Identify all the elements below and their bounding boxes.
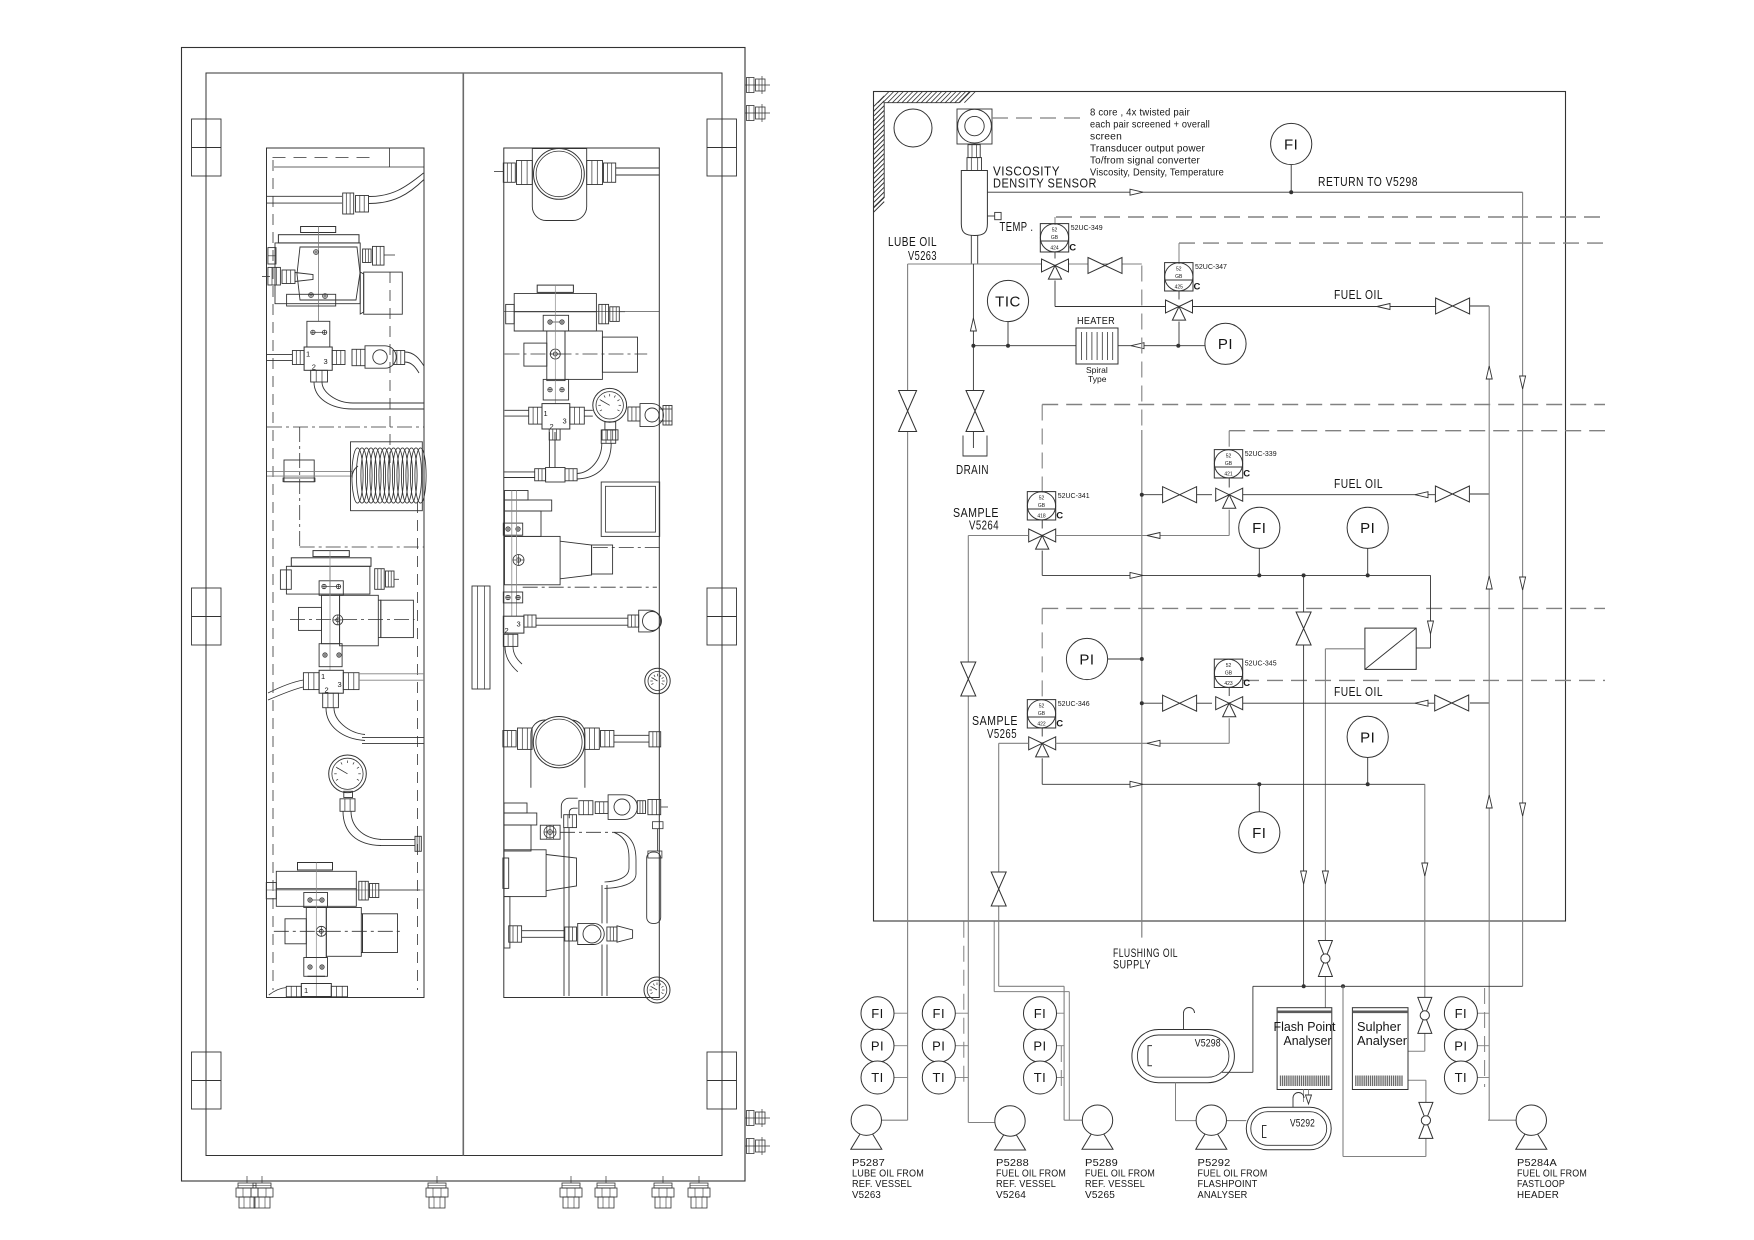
sample labels V5265 [972,713,1018,741]
cable gland [426,1176,448,1208]
pump label P5289 [1085,1157,1155,1201]
svg-text:PI: PI [1360,520,1375,537]
svg-text:TI: TI [871,1070,884,1085]
pump label P5287 [852,1157,924,1201]
collect line row3 [1042,758,1425,787]
svg-text:52UC-341: 52UC-341 [1058,493,1090,500]
fuel oil line row2 [1142,476,1489,498]
svg-text:52UC-345: 52UC-345 [1245,661,1277,668]
svg-text:GB: GB [1175,274,1183,280]
cable gland [560,1176,582,1208]
door split line [462,73,464,1156]
svg-text:C: C [1243,469,1250,480]
svg-text:DENSITY SENSOR: DENSITY SENSOR [993,176,1097,191]
hand valve row1 right [1436,298,1470,314]
equipment box right [601,482,660,536]
svg-text:425: 425 [1175,284,1184,290]
flash point analyser [1274,1008,1337,1090]
hinge block [707,588,737,645]
TEMP tapping [987,212,1033,234]
pump P5292 [1196,1105,1247,1149]
flushing oil label [1113,946,1178,972]
manifold block M3 [269,984,348,997]
hinge block [192,1052,222,1109]
PI row3 left [1066,638,1141,679]
return line to V5298 [987,174,1525,986]
pump P5288 [969,1106,1026,1150]
FI top instrument [1271,123,1312,194]
svg-text:Viscosity, Density, Temperatur: Viscosity, Density, Temperature [1090,167,1224,179]
blank circle [894,109,932,147]
PI row2 [1347,507,1388,575]
svg-text:1: 1 [544,409,548,418]
svg-text:3: 3 [517,620,521,629]
svg-text:PI: PI [1218,336,1233,353]
svg-text:each pair screened + overall: each pair screened + overall [1090,119,1210,131]
svg-text:52: 52 [1039,704,1045,710]
hand valve row3 mid [1163,695,1197,711]
junction box on tube [267,460,352,482]
svg-text:Analyser: Analyser [1357,1034,1407,1048]
sample labels V5264 [953,505,999,533]
pump label P5292 [1198,1157,1268,1201]
svg-text:GB: GB [1051,235,1059,241]
instrument box 52UC-347 [1165,243,1227,299]
flash point analyser drain to V5292 [1293,1090,1312,1108]
cable gland [251,1176,273,1208]
cable gland [595,1176,617,1208]
flow sensor FS1 top [494,149,659,221]
svg-text:52: 52 [1176,267,1182,273]
manifold block MB1 [505,404,593,440]
svg-text:3: 3 [324,357,328,366]
lube oil labels [888,234,937,263]
svg-text:52: 52 [1226,663,1232,669]
svg-text:PI: PI [1454,1038,1467,1053]
svg-text:52: 52 [1052,228,1058,234]
sample isolation valve row2 [961,662,976,696]
svg-text:GB: GB [1038,711,1046,717]
left panel mid centerlines [267,427,424,547]
instrument box 52UC-341 [1027,492,1089,529]
drain valve [966,391,984,432]
filter outlet to analyser [1322,649,1365,1008]
three-way valve V349 [1042,259,1069,279]
svg-text:PI: PI [871,1038,884,1053]
tee fitting assembly [504,430,616,482]
svg-text:1: 1 [304,986,308,995]
svg-text:Flash Point: Flash Point [1274,1020,1337,1034]
left panel dashed borders [273,148,425,990]
pump P5289 [1064,1105,1113,1149]
svg-text:HEADER: HEADER [1517,1189,1559,1201]
pump label P5284A [1517,1157,1587,1201]
svg-text:C: C [1069,243,1076,254]
svg-text:V5265: V5265 [1085,1189,1115,1201]
cabinet outer enclosure [182,48,746,1182]
svg-text:Analyser: Analyser [1284,1034,1332,1048]
instrument box 52UC-346 [1027,700,1089,737]
viscosity density sensor [957,109,992,264]
svg-text:C: C [1194,282,1201,293]
svg-text:PI: PI [1360,729,1375,746]
isolation valve lube line [899,391,917,432]
svg-text:FUEL OIL: FUEL OIL [1334,287,1383,302]
sample isolation valve row3 [991,872,1006,906]
svg-text:FI: FI [1455,1006,1468,1021]
fuel oil line row3 [1142,684,1489,706]
side bolt [745,76,770,94]
side bolt [745,1109,770,1127]
small gauge bottom right [644,977,670,1003]
svg-text:DRAIN: DRAIN [956,462,989,477]
hinge block [192,119,222,176]
svg-text:screen: screen [1090,131,1122,143]
svg-text:C: C [1056,719,1063,730]
valve to flushing header [1296,575,1311,986]
fuel oil line row1 [1193,287,1490,310]
svg-text:RETURN TO V5298: RETURN TO V5298 [1318,174,1418,189]
svg-text:V5264: V5264 [969,518,999,533]
actuator valve assembly B1 [504,285,660,404]
FI row3 [1239,784,1280,853]
instrument stack 2 [922,922,968,1094]
sulpher return loop [1343,986,1426,1156]
line to sulpher analyser [1408,784,1428,1051]
svg-text:V5265: V5265 [987,726,1017,741]
svg-text:52UC-339: 52UC-339 [1245,451,1277,458]
svg-text:FUEL OIL: FUEL OIL [1334,684,1383,699]
hand valve row3 right [1435,695,1469,711]
instrument stack 3 [1024,997,1065,1094]
three-way valve V345 [1216,697,1243,717]
pump P5284A [1488,1105,1547,1149]
instrument stack 1 [861,997,908,1094]
hinge block [192,588,222,645]
instrument box 52UC-345 [1214,659,1276,696]
svg-text:52: 52 [1226,454,1232,460]
sample line row2 [968,510,1229,1123]
three-way valve V346 [1029,737,1056,757]
svg-text:FI: FI [1252,520,1266,537]
cable gland [236,1176,258,1208]
vessel V5298 [1132,1008,1235,1083]
cooling coil [351,442,427,511]
svg-text:To/from signal converter: To/from signal converter [1090,155,1200,167]
side bolt [745,104,770,122]
flow sensor FS2 lower [503,717,661,788]
svg-text:HEATER: HEATER [1077,315,1115,327]
svg-text:V5263: V5263 [908,248,937,263]
vessel V5292 [1246,1107,1331,1150]
svg-text:SUPPLY: SUPPLY [1113,958,1151,972]
hatched wall corner [874,92,976,213]
svg-text:3: 3 [563,417,567,426]
return header line [1253,984,1523,988]
drain branch [956,264,989,477]
svg-text:424: 424 [1050,245,1059,251]
svg-text:TI: TI [1455,1070,1468,1085]
svg-text:V5264: V5264 [996,1189,1026,1201]
svg-text:PI: PI [932,1038,945,1053]
svg-text:422: 422 [1037,721,1046,727]
svg-text:ANALYSER: ANALYSER [1198,1189,1248,1201]
hinge block [707,1052,737,1109]
manifold block M2 [268,670,424,743]
svg-text:52UC-347: 52UC-347 [1195,264,1227,271]
actuator assembly B2 side view [503,491,661,617]
svg-text:FUEL OIL: FUEL OIL [1334,476,1383,491]
three-way valve V347 [1166,300,1193,320]
signal note text [1090,107,1224,179]
ball valve run with elbow [561,795,668,996]
TIC controller [987,280,1028,347]
svg-text:418: 418 [1037,513,1046,519]
sensor labels [993,164,1097,191]
svg-text:C: C [1056,511,1063,522]
svg-text:3: 3 [338,680,342,689]
pressure gauge G1 [329,755,422,851]
svg-text:52: 52 [1039,496,1045,502]
V5298 outlet to return header [1222,986,1253,1072]
three-way valve V341 [1029,529,1056,549]
globe valve sulpher return [1419,1102,1433,1138]
globe valve analyser feed [1318,941,1332,977]
V5298 drain to pump P5292 [1176,1083,1197,1121]
svg-text:423: 423 [1224,681,1233,687]
svg-text:2: 2 [505,626,509,635]
svg-text:Transducer output power: Transducer output power [1090,143,1205,155]
side bolt [745,1137,770,1155]
svg-text:GB: GB [1225,461,1233,467]
svg-text:V5263: V5263 [852,1189,881,1201]
svg-text:52UC-346: 52UC-346 [1058,701,1090,708]
svg-text:52UC-349: 52UC-349 [1071,225,1103,232]
hand valve row2 mid [1163,487,1197,503]
ball valve at panel edge B1row [628,404,672,427]
instrument box 52UC-349 [1040,217,1102,259]
svg-text:FI: FI [933,1006,946,1021]
svg-text:1: 1 [306,350,310,359]
heater [1076,315,1118,384]
instrument stack 4 [1444,988,1489,1094]
svg-text:LUBE OIL: LUBE OIL [888,234,937,249]
filter/cooler [1365,628,1416,669]
svg-text:GB: GB [1225,670,1233,676]
svg-text:FI: FI [1284,136,1298,153]
hand valve row2 right [1435,486,1469,502]
cylinder right edge [647,822,663,924]
sulpher analyser [1352,1008,1408,1090]
svg-text:TI: TI [933,1070,946,1085]
svg-text:GB: GB [1038,503,1046,509]
svg-text:C: C [1243,678,1250,689]
manifold block M1 with ports 1 2 3 [267,346,424,409]
svg-text:Sulpher: Sulpher [1357,1020,1401,1034]
hand valve row1 [1088,258,1122,274]
sensor signal dashed line [992,117,1085,119]
pump P5287 [851,1105,908,1149]
svg-text:Type: Type [1088,374,1107,384]
actuator valve assembly A3 [266,863,424,997]
heater inlet line [973,345,1076,347]
fuel oil supply riser [1486,306,1492,1120]
svg-text:FI: FI [1034,1006,1047,1021]
door handle [472,586,490,689]
svg-text:1: 1 [321,672,325,681]
PI row3 [1347,716,1388,784]
svg-text:421: 421 [1224,471,1233,477]
flushing oil vertical [1140,430,1144,938]
cable gland [688,1176,710,1208]
globe valve sulpher feed [1418,997,1432,1033]
manifold MB2 and long pipe [503,610,661,672]
hinge block [707,119,737,176]
svg-text:TI: TI [1034,1070,1047,1085]
dashed signal lines right [1042,217,1605,701]
cable gland [652,1176,674,1208]
P&ID border [874,92,1566,922]
svg-text:FI: FI [871,1006,884,1021]
line V349 to V347 [1055,281,1166,307]
small gauge right edge [645,668,670,693]
svg-text:V5292: V5292 [1290,1118,1315,1130]
FI row2 [1239,507,1280,575]
actuator valve assembly A2 [280,551,414,670]
pump label P5288 [996,1157,1066,1201]
actuator valve assembly A1 [262,227,402,348]
svg-text:PI: PI [1079,651,1094,668]
svg-text:V5298: V5298 [1195,1038,1221,1050]
pressure gauge G2 [593,388,627,440]
svg-text:PI: PI [1033,1038,1046,1053]
collect line row2 [1042,551,1433,649]
sample line row3 [994,718,1229,1120]
svg-text:8 core , 4x twisted pair: 8 core , 4x twisted pair [1090,107,1190,119]
sample line 1 lube oil [908,264,1142,1120]
left door panel frame [267,148,425,998]
lower valve run B3 [509,832,636,996]
heater outlet line with PI [1118,322,1246,365]
instrument box 52UC-339 [1214,450,1276,488]
right door panel frame [504,148,660,998]
three-way valve V339 [1216,488,1243,508]
left panel top pipe with union [267,173,424,214]
svg-text:TIC: TIC [995,293,1021,310]
svg-text:FI: FI [1252,825,1266,842]
svg-text:TEMP .: TEMP . [1000,219,1034,234]
actuator assembly B3 side view [503,803,621,948]
